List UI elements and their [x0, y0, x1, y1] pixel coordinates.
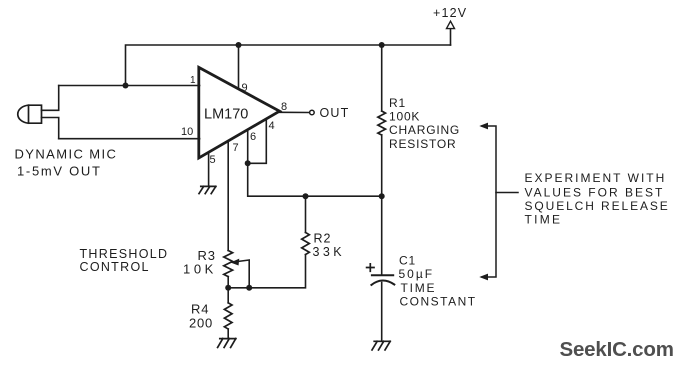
svg-text:50µF: 50µF	[399, 267, 435, 281]
wire squelch bus	[248, 163, 382, 196]
node J1	[123, 83, 129, 89]
wire top bus	[126, 45, 451, 86]
node J8	[246, 285, 252, 291]
svg-text:+12V: +12V	[433, 6, 467, 20]
svg-text:1: 1	[190, 75, 196, 86]
svg-text:OUT: OUT	[320, 106, 350, 120]
svg-text:4: 4	[269, 120, 275, 132]
svg-text:10K: 10K	[183, 262, 217, 277]
wire pin6	[247, 130, 249, 163]
svg-text:7: 7	[233, 142, 239, 154]
wire pin1 input	[59, 85, 200, 87]
capacitor C1	[372, 274, 393, 276]
svg-text:10: 10	[181, 126, 193, 138]
svg-text:C1: C1	[399, 254, 416, 268]
svg-text:RESISTOR: RESISTOR	[389, 137, 457, 151]
node J4	[245, 160, 251, 166]
node J7	[225, 285, 231, 291]
potentiometer R3	[224, 251, 233, 277]
annotation bracket	[482, 126, 496, 277]
svg-text:CONTROL: CONTROL	[80, 260, 150, 274]
wire mic top stub	[42, 86, 59, 111]
wire C1 top	[381, 196, 383, 275]
wire pin10 input	[59, 138, 200, 140]
svg-text:CHARGING: CHARGING	[389, 123, 460, 137]
wire R3 wiper	[238, 260, 250, 288]
wire R2 branch	[305, 196, 307, 232]
wire pin4	[248, 120, 267, 164]
svg-text:5: 5	[210, 154, 216, 166]
svg-text:6: 6	[250, 131, 256, 143]
svg-text:33K: 33K	[313, 245, 345, 259]
node J6	[379, 193, 385, 199]
resistor R2	[302, 233, 310, 255]
wire R2 bottom	[249, 255, 305, 288]
svg-text:TIME: TIME	[401, 281, 437, 295]
svg-text:DYNAMIC MIC: DYNAMIC MIC	[15, 146, 118, 161]
node J2	[236, 42, 242, 48]
microphone MIC	[18, 105, 42, 123]
node J5	[303, 193, 309, 199]
svg-text:R4: R4	[191, 302, 209, 317]
wire pin7	[227, 141, 229, 251]
svg-text:SQUELCH RELEASE: SQUELCH RELEASE	[525, 199, 670, 213]
svg-text:SeekIC.com: SeekIC.com	[560, 338, 674, 361]
wire pin8 output	[280, 111, 310, 113]
svg-text:R1: R1	[389, 96, 406, 110]
node J3	[379, 42, 385, 48]
C1 plus sign	[367, 264, 374, 271]
svg-text:CONSTANT: CONSTANT	[400, 295, 477, 309]
svg-text:VALUES FOR BEST: VALUES FOR BEST	[525, 185, 665, 199]
svg-text:LM170: LM170	[204, 107, 248, 123]
ground G1	[199, 186, 216, 193]
wire pin5	[208, 153, 210, 187]
ground G2	[218, 339, 236, 348]
wire C1 bottom	[381, 283, 383, 342]
ground G3	[372, 341, 390, 350]
svg-text:1-5mV OUT: 1-5mV OUT	[17, 163, 102, 178]
+12V terminal	[450, 29, 452, 45]
resistor R4	[224, 303, 232, 329]
svg-text:THRESHOLD: THRESHOLD	[80, 247, 169, 261]
wire mic bottom stub	[42, 118, 59, 139]
wire pot bus	[228, 287, 249, 289]
op-amp U1 LM170	[199, 67, 280, 158]
bracket tick	[496, 192, 518, 194]
wire R3 bottom	[227, 277, 229, 303]
resistor R1	[381, 45, 383, 111]
node OUT terminal	[310, 110, 315, 115]
svg-text:EXPERIMENT WITH: EXPERIMENT WITH	[525, 171, 667, 185]
svg-text:200: 200	[189, 316, 213, 331]
svg-text:R2: R2	[314, 232, 332, 246]
svg-text:8: 8	[281, 101, 287, 113]
svg-text:9: 9	[242, 82, 248, 94]
wire R4 bottom	[227, 329, 229, 339]
svg-text:100K: 100K	[389, 110, 420, 124]
wire pin9	[238, 45, 240, 89]
svg-text:TIME: TIME	[525, 213, 563, 227]
